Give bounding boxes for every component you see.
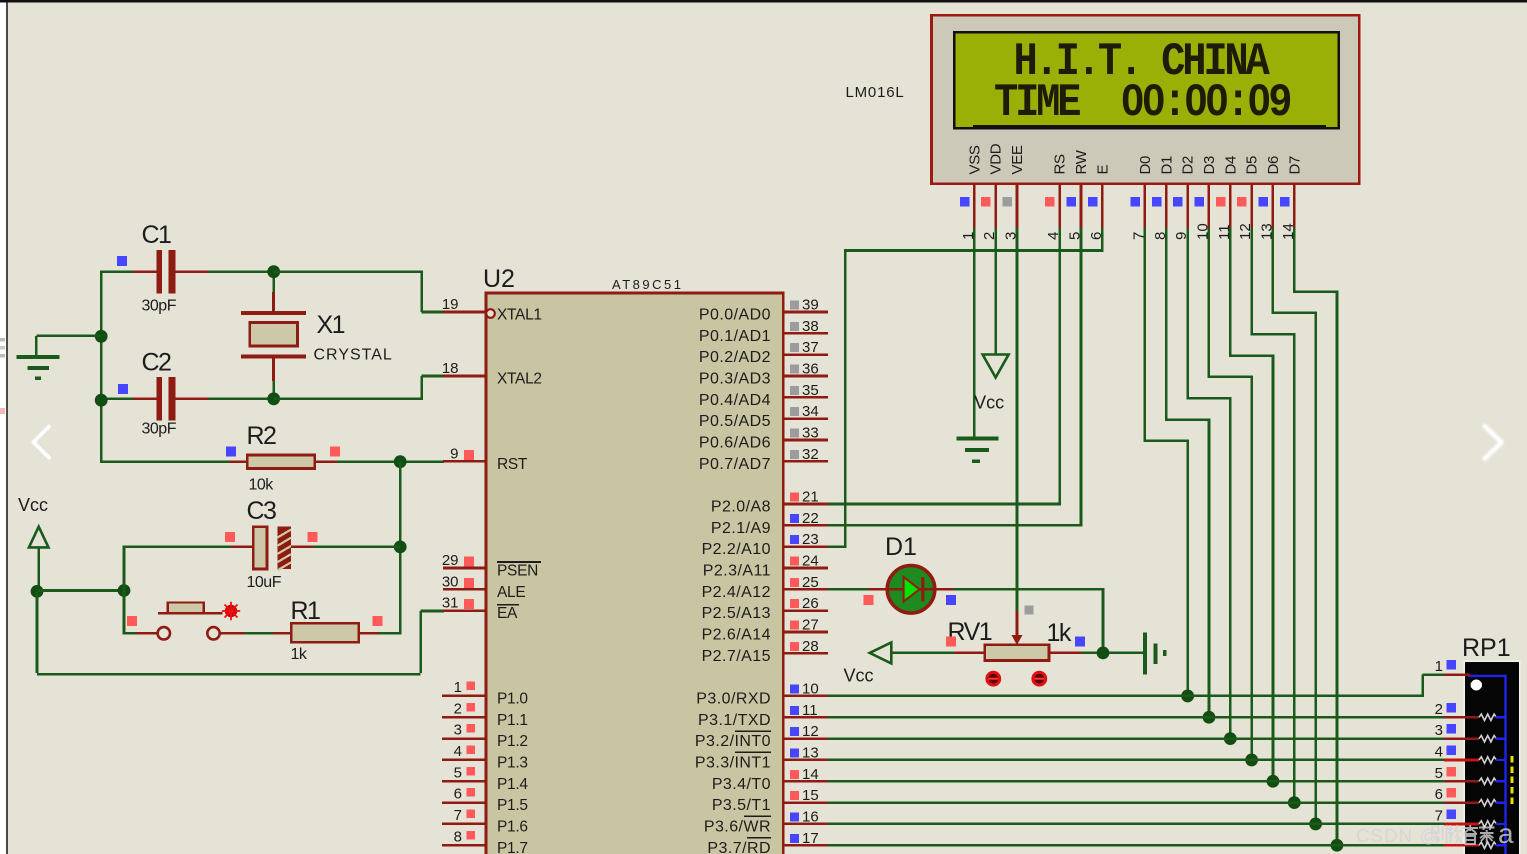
- wire to ground: [36, 336, 101, 356]
- junction Vcc tee: [31, 585, 44, 598]
- button red actuator marker: [222, 602, 240, 620]
- P2.1 pin label: [711, 520, 771, 537]
- svg-text:P1.4: P1.4: [497, 776, 528, 793]
- XTAL1 pin label + clock marker: [486, 307, 542, 324]
- P1.2 pin label: [497, 733, 528, 750]
- svg-text:P3.2/INT0: P3.2/INT0: [695, 733, 771, 750]
- svg-text:EA: EA: [497, 605, 518, 622]
- P0.5 pin label: [699, 413, 771, 430]
- svg-text:P0.4/AD4: P0.4/AD4: [699, 392, 771, 409]
- LCD pin 5 stub: [1066, 184, 1083, 240]
- svg-text:P0.0/AD0: P0.0/AD0: [699, 307, 771, 324]
- C1 state square: [117, 256, 127, 266]
- svg-text:37: 37: [802, 339, 819, 356]
- carousel right arrow: [1485, 426, 1502, 459]
- pin 5 stub (P1.4): [442, 764, 486, 781]
- svg-text:XTAL2: XTAL2: [497, 370, 542, 387]
- svg-text:P0.3/AD3: P0.3/AD3: [699, 370, 771, 387]
- svg-text:P0.6/AD6: P0.6/AD6: [699, 434, 771, 451]
- LCD pin 8 stub: [1152, 184, 1169, 240]
- R1 state square: [372, 616, 382, 626]
- svg-text:18: 18: [442, 360, 459, 377]
- svg-text:15: 15: [802, 787, 819, 804]
- svg-text:P2.2/A10: P2.2/A10: [702, 541, 771, 558]
- LCD pin 2 stub: [981, 184, 998, 240]
- EA pin label: [497, 605, 519, 623]
- wire Vcc tee to C3 tee: [37, 589, 124, 592]
- junction RV1/ground/D1: [1097, 647, 1110, 660]
- svg-text:19: 19: [442, 296, 459, 313]
- wire C3 tee down: [123, 591, 126, 635]
- wire D1 to ground corner: [953, 588, 1103, 653]
- svg-text:VSS: VSS: [966, 145, 983, 174]
- LCD pin 3 stub: [1002, 184, 1019, 240]
- wire node B to XTAL2: [274, 376, 444, 400]
- LCD pin 14 stub: [1280, 184, 1297, 240]
- svg-text:8: 8: [454, 828, 462, 845]
- svg-text:34: 34: [802, 403, 819, 420]
- P2.6 pin label: [702, 626, 771, 643]
- P1.1 pin label: [497, 712, 528, 729]
- svg-text:6: 6: [1435, 786, 1443, 803]
- watermark CSDN: [1356, 818, 1514, 849]
- pin 15 stub (P3.5): [783, 787, 828, 804]
- P3.6 pin label: [704, 816, 771, 835]
- wire button to R1: [244, 632, 273, 635]
- svg-text:CRYSTAL: CRYSTAL: [314, 347, 393, 364]
- svg-text:1k: 1k: [291, 646, 308, 663]
- pin 30 stub (ALE): [442, 573, 486, 590]
- pin 25 stub (P2.4): [783, 574, 828, 591]
- svg-text:17: 17: [802, 830, 819, 847]
- left window border: [6, 0, 8, 854]
- svg-text:1: 1: [454, 679, 462, 696]
- svg-text:TIME 00:00:09: TIME 00:00:09: [994, 78, 1290, 130]
- wire X1 bottom to node B: [272, 359, 275, 399]
- junction D3/P3.3: [1245, 754, 1258, 767]
- LCD pin label D6: [1265, 156, 1282, 175]
- P1.4 pin label: [497, 776, 528, 793]
- svg-text:26: 26: [802, 595, 819, 612]
- svg-text:D4: D4: [1222, 156, 1239, 175]
- LCD pin label D7: [1286, 156, 1303, 175]
- pin 17 stub (P3.7): [783, 830, 828, 847]
- resistor R2: [229, 455, 337, 469]
- svg-text:5: 5: [1435, 765, 1443, 782]
- wire C1 left (rail to C1): [100, 270, 133, 273]
- LCD pin 10 stub: [1194, 184, 1211, 240]
- svg-text:RP1: RP1: [1462, 634, 1511, 662]
- U2 value AT89C51: [612, 277, 683, 292]
- svg-text:XTAL1: XTAL1: [497, 307, 542, 324]
- LCD pin label D1: [1158, 156, 1175, 175]
- ground (under LCD): [956, 436, 998, 462]
- P2.7 pin label: [702, 648, 771, 665]
- pin 27 stub (P2.6): [783, 616, 828, 633]
- pin 23 stub (P2.2): [783, 531, 828, 548]
- C3 value 10uF: [247, 574, 282, 591]
- pin 21 stub (P2.0): [783, 488, 828, 505]
- pin 26 stub (P2.5): [783, 595, 828, 612]
- pin 3 stub (P1.2): [442, 722, 486, 739]
- svg-text:10: 10: [802, 680, 819, 697]
- pin 8 stub (P1.7): [442, 828, 486, 845]
- RP1 yellow value marks: [1511, 756, 1514, 804]
- svg-text:LM016L: LM016L: [846, 84, 905, 101]
- svg-text:P2.1/A9: P2.1/A9: [711, 520, 771, 537]
- U2 label: [483, 265, 515, 293]
- wire P3.0 to RP1 pin1: [828, 675, 1444, 698]
- RV1 state square right: [1075, 636, 1085, 646]
- Vcc label (RV1): [844, 666, 874, 686]
- ground (left): [17, 355, 60, 380]
- XTAL2 pin label: [497, 370, 542, 387]
- wire P3.3 to RP1 pin4: [828, 759, 1444, 762]
- junction D0/P3.0: [1181, 690, 1194, 703]
- P2.2 pin label: [702, 541, 771, 558]
- svg-text:10uF: 10uF: [247, 574, 282, 591]
- P0.7 pin label: [699, 456, 771, 473]
- svg-text:D0: D0: [1137, 156, 1154, 175]
- wire P2.2 to E: [828, 545, 845, 548]
- LCD pin 11 stub: [1216, 184, 1233, 240]
- wire D0 to P3.0: [1144, 227, 1189, 696]
- LCD screen: [954, 32, 1339, 128]
- P3.3 pin label: [695, 752, 771, 771]
- RP1 pin 2: [1435, 701, 1506, 721]
- RV1 adjust buttons: [987, 672, 1046, 685]
- D1 label: [885, 533, 917, 561]
- svg-text:D1: D1: [885, 533, 917, 561]
- svg-text:30pF: 30pF: [142, 421, 177, 438]
- pin 14 stub (P3.4): [783, 766, 828, 783]
- wire P2.4 to D1: [828, 588, 868, 591]
- svg-text:P1.5: P1.5: [497, 797, 528, 814]
- wire node A to X1 top: [272, 272, 275, 311]
- LCD pin 4 stub: [1045, 184, 1062, 240]
- Vcc label (under LCD): [974, 393, 1004, 413]
- svg-text:P0.2/AD2: P0.2/AD2: [699, 349, 771, 366]
- pin 12 stub (P3.2): [783, 723, 828, 740]
- P2.5 pin label: [702, 605, 771, 622]
- svg-text:VEE: VEE: [1009, 145, 1026, 174]
- wire tee to button: [124, 632, 136, 635]
- svg-text:R1: R1: [291, 597, 321, 625]
- LCD pin label E: [1094, 165, 1111, 175]
- svg-text:P1.6: P1.6: [497, 818, 528, 835]
- pin 35 stub (P0.4): [783, 382, 828, 399]
- pin 31 stub (EA): [442, 595, 486, 612]
- junction D1/P3.1: [1203, 711, 1216, 724]
- pin 7 stub (P1.6): [442, 807, 486, 824]
- svg-text:D6: D6: [1265, 156, 1282, 175]
- svg-text:10k: 10k: [249, 477, 275, 494]
- junction R2/RST: [394, 455, 407, 468]
- LCD pin label D2: [1180, 156, 1197, 175]
- pin 2 stub (P1.1): [442, 700, 486, 717]
- svg-text:7: 7: [1435, 808, 1443, 825]
- svg-text:Vcc: Vcc: [18, 495, 48, 515]
- svg-text:13: 13: [802, 744, 819, 761]
- RP1 pin 3: [1435, 722, 1506, 742]
- wire rail to R2: [100, 460, 229, 463]
- svg-text:C2: C2: [142, 349, 172, 377]
- pin 6 stub (P1.5): [442, 786, 486, 803]
- RV1 label: [948, 618, 992, 646]
- wire P3.2 to RP1 pin3: [828, 737, 1444, 740]
- R1 label: [291, 597, 321, 625]
- wire RV1 to ground: [1082, 652, 1144, 655]
- svg-text:P0.7/AD7: P0.7/AD7: [699, 456, 771, 473]
- svg-text:5: 5: [454, 764, 462, 781]
- C2 value 30pF: [142, 421, 177, 438]
- junction C3 right rail: [394, 541, 407, 554]
- P0.0 pin label: [699, 307, 771, 324]
- left gutter pink mark: [0, 408, 5, 414]
- LCD LM016L body: [932, 15, 1360, 184]
- svg-text:P2.5/A13: P2.5/A13: [702, 605, 771, 622]
- pin 37 stub (P0.2): [783, 339, 828, 356]
- wire D4 to P3.4: [1229, 227, 1274, 781]
- LCD pin label D4: [1222, 156, 1239, 175]
- svg-text:P1.1: P1.1: [497, 712, 528, 729]
- VEE state square: [1025, 606, 1034, 615]
- left white gutter: [0, 0, 6, 854]
- svg-text:P3.3/INT1: P3.3/INT1: [695, 754, 771, 771]
- svg-text:2: 2: [454, 700, 462, 717]
- RP1 pin1 marker: [1471, 680, 1482, 691]
- D1 state square left: [864, 595, 874, 605]
- svg-text:D1: D1: [1158, 156, 1175, 175]
- P3.4 pin label: [712, 776, 771, 793]
- junction D4/P3.4: [1267, 775, 1280, 788]
- RV1 value 1k: [1047, 619, 1072, 647]
- wire C2 right to node: [208, 397, 273, 400]
- LCD pin 12 stub: [1237, 184, 1254, 240]
- RP1 pin 5: [1435, 765, 1506, 785]
- pin 39 stub (P0.0): [783, 297, 828, 314]
- C2 label: [142, 349, 172, 377]
- C3 state square left: [225, 532, 235, 542]
- svg-text:P0.1/AD1: P0.1/AD1: [699, 328, 771, 345]
- P1.0 pin label: [497, 690, 528, 707]
- svg-text:CSDN @: CSDN @: [1356, 825, 1440, 846]
- PSEN pin label: [497, 562, 541, 580]
- P3.1 pin label: [698, 712, 771, 729]
- svg-text:P2.6/A14: P2.6/A14: [702, 626, 771, 643]
- pin 32 stub (P0.7): [783, 446, 828, 463]
- wire vertical R2-C3-R1: [399, 462, 402, 634]
- P0.4 pin label: [699, 392, 771, 409]
- wire P3.4 to RP1 pin5: [828, 780, 1444, 783]
- wire C3 tee up: [123, 547, 126, 591]
- P1.7 pin label: [497, 840, 528, 854]
- svg-text:P0.5/AD5: P0.5/AD5: [699, 413, 771, 430]
- potentiometer RV1: [955, 611, 1082, 661]
- pin 19 stub (XTAL1): [442, 296, 486, 313]
- pin 18 stub (XTAL2): [442, 360, 486, 377]
- C1 value 30pF: [142, 298, 177, 315]
- wire C3 right: [314, 546, 401, 549]
- svg-text:6: 6: [454, 786, 462, 803]
- C2 state square: [118, 384, 128, 394]
- C3 state square right: [308, 532, 318, 542]
- X1 label: [317, 311, 345, 339]
- svg-text:25: 25: [802, 574, 819, 591]
- svg-text:C3: C3: [247, 497, 277, 525]
- svg-text:24: 24: [802, 552, 819, 569]
- Vcc power arrow (left, RV1): [870, 642, 892, 663]
- wire R2 to RST: [337, 460, 444, 463]
- wire P3.7 to RP1 pin8: [828, 844, 1444, 847]
- pin 28 stub (P2.7): [783, 638, 828, 655]
- button state square: [127, 616, 137, 626]
- svg-text:30pF: 30pF: [142, 298, 177, 315]
- pin 38 stub (P0.1): [783, 318, 828, 335]
- pin 1 stub (P1.0): [442, 679, 486, 696]
- wire RS down: [1058, 227, 1061, 505]
- P2.0 pin label: [711, 498, 771, 515]
- svg-text:39: 39: [802, 297, 819, 314]
- RP1 pin 8: [1444, 842, 1506, 848]
- svg-text:Vcc: Vcc: [974, 393, 1004, 413]
- svg-text:12: 12: [802, 723, 819, 740]
- capacitor C2: [133, 377, 208, 421]
- svg-text:P1.3: P1.3: [497, 754, 528, 771]
- wire P2.1 to RW: [828, 524, 1082, 527]
- svg-text:14: 14: [802, 766, 819, 783]
- pin 11 stub (P3.1): [783, 702, 828, 719]
- wire R1 to rail corner: [378, 632, 401, 635]
- P1.5 pin label: [497, 797, 528, 814]
- svg-text:VDD: VDD: [988, 143, 1005, 174]
- svg-text:3: 3: [454, 722, 462, 739]
- svg-text:AT89C51: AT89C51: [612, 277, 683, 292]
- wire bottom rail: [37, 591, 444, 674]
- pin 34 stub (P0.5): [783, 403, 828, 420]
- pin 22 stub (P2.1): [783, 510, 828, 527]
- svg-text:a: a: [1498, 818, 1514, 849]
- pin 33 stub (P0.6): [783, 424, 828, 441]
- svg-text:29: 29: [442, 552, 459, 569]
- svg-text:P3.5/T1: P3.5/T1: [712, 797, 771, 814]
- wire P3.1 to RP1 pin2: [828, 716, 1444, 719]
- svg-text:RS: RS: [1052, 154, 1069, 175]
- svg-text:RST: RST: [497, 456, 528, 473]
- svg-text:P3.7/RD: P3.7/RD: [707, 840, 771, 854]
- svg-text:3: 3: [1435, 722, 1443, 739]
- RST pin label: [497, 456, 528, 473]
- P3.5 pin label: [712, 797, 771, 814]
- svg-text:U2: U2: [483, 265, 515, 293]
- svg-text:9: 9: [450, 445, 458, 462]
- svg-text:P3.4/T0: P3.4/T0: [712, 776, 771, 793]
- wire C3 left: [123, 546, 231, 549]
- LCD zero-dot masks: [1129, 95, 1263, 104]
- svg-text:P3.1/TXD: P3.1/TXD: [698, 712, 771, 729]
- wire E down-left-down: [845, 227, 1103, 548]
- pin 29 stub (PSEN): [442, 552, 486, 569]
- svg-text:P2.4/A12: P2.4/A12: [702, 584, 771, 601]
- wire Vcc arrow to RV1: [891, 652, 954, 655]
- pin 16 stub (P3.6): [783, 808, 828, 825]
- node A junction (C1/X1/XTAL1): [267, 265, 280, 278]
- node B junction (C2/X1/XTAL2): [267, 392, 280, 405]
- carousel left arrow: [33, 427, 49, 458]
- svg-text:1: 1: [1435, 658, 1443, 675]
- C3 label: [247, 497, 277, 525]
- LM016L label: [846, 84, 905, 101]
- wire node A to XTAL1: [274, 270, 444, 312]
- junction D5/P3.5: [1288, 796, 1301, 809]
- LCD pin label RW: [1073, 149, 1090, 174]
- R2 state square right: [330, 447, 340, 457]
- svg-text:P1.0: P1.0: [497, 690, 528, 707]
- svg-text:2: 2: [1435, 701, 1443, 718]
- svg-text:4: 4: [454, 743, 462, 760]
- junction D6/P3.6: [1309, 818, 1322, 831]
- P1.3 pin label: [497, 754, 528, 771]
- P2.4 pin label: [702, 584, 771, 601]
- led D1: [868, 565, 953, 613]
- capacitor C1: [133, 250, 208, 294]
- svg-text:ALE: ALE: [497, 584, 525, 601]
- wire D2 to P3.2: [1186, 227, 1231, 738]
- P0.6 pin label: [699, 434, 771, 451]
- LCD pin 6 stub: [1088, 184, 1105, 240]
- svg-text:PSEN: PSEN: [497, 562, 538, 579]
- crystal X1: [241, 311, 306, 359]
- top black bar: [0, 0, 1527, 2]
- svg-text:D7: D7: [1286, 156, 1303, 175]
- svg-text:P3.0/RXD: P3.0/RXD: [696, 690, 771, 707]
- pin 13 stub (P3.3): [783, 744, 828, 761]
- P1.6 pin label: [497, 818, 528, 835]
- svg-text:32: 32: [802, 446, 819, 463]
- svg-text:27: 27: [802, 616, 819, 633]
- junction rail-C2: [95, 394, 108, 407]
- Vcc power arrow (up): [29, 527, 49, 592]
- push button: [136, 603, 244, 640]
- LCD text line2 TIME 00:00:09: [994, 78, 1290, 130]
- wire C1 right to node: [208, 270, 273, 273]
- P2.3 pin label: [703, 562, 771, 579]
- svg-text:7: 7: [454, 807, 462, 824]
- mcu U2 body AT89C51: [486, 293, 783, 854]
- svg-text:X1: X1: [317, 311, 345, 339]
- svg-text:C1: C1: [142, 221, 172, 249]
- pin 10 stub (P3.0): [783, 680, 828, 697]
- svg-text:P2.0/A8: P2.0/A8: [711, 498, 771, 515]
- LCD pin label D5: [1244, 156, 1261, 175]
- RP1 pin 1: [1435, 658, 1470, 675]
- ground (right, rotated): [1143, 633, 1167, 675]
- RP1 pin 7: [1435, 808, 1506, 828]
- RP1 pin 4: [1435, 744, 1506, 764]
- LCD pin label RS: [1052, 154, 1069, 175]
- svg-text:22: 22: [802, 510, 819, 527]
- capacitor C3 (electrolytic): [231, 527, 314, 571]
- RV1 state square left: [946, 636, 956, 646]
- RP1 pin 6: [1435, 786, 1506, 806]
- svg-text:P2.7/A15: P2.7/A15: [702, 648, 771, 665]
- wire left rail vertical: [100, 270, 103, 463]
- wire D7 to P3.7: [1293, 227, 1338, 845]
- LCD pin label D0: [1137, 156, 1154, 175]
- svg-text:P1.2: P1.2: [497, 733, 528, 750]
- svg-text:D3: D3: [1201, 156, 1218, 175]
- wire P2.0 to RS: [828, 503, 1061, 506]
